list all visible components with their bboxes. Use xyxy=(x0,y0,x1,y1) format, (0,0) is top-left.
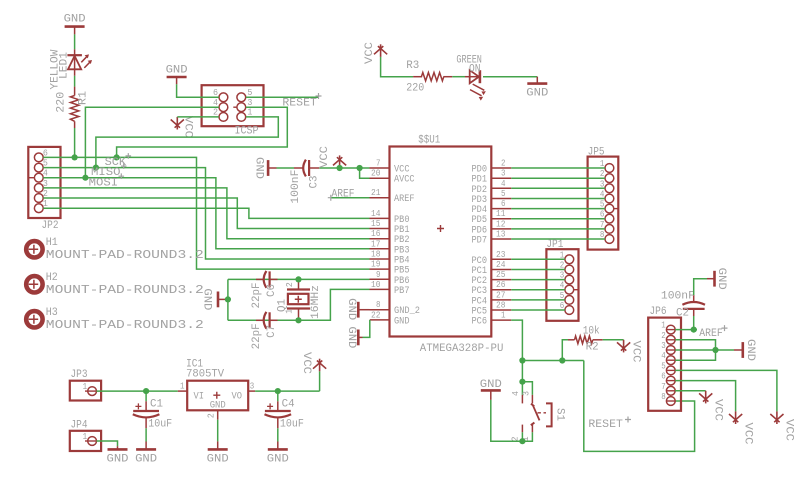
pin JP4.1 xyxy=(83,432,97,445)
svg-text:GND: GND xyxy=(107,454,129,466)
pin JP5.7 xyxy=(600,220,614,233)
pin ICSP.6 xyxy=(213,88,228,102)
wire XTAL2 row (C7 / Q1 bottom to U1 pin10) xyxy=(228,289,370,320)
svg-text:GND: GND xyxy=(744,339,756,361)
supply VCC (arrow up, at U1 pin 7 rail) xyxy=(319,146,346,168)
pin U1 PD2 4 xyxy=(472,179,512,196)
svg-text:AREF: AREF xyxy=(699,328,723,340)
switch S1 xyxy=(511,391,566,442)
wire SCK JP2.6 to PB5 xyxy=(43,157,369,269)
ground GND (right of green LED) xyxy=(526,77,548,100)
pin U1 PB4 18 xyxy=(370,250,410,267)
svg-text:3: 3 xyxy=(521,391,531,396)
pin JP2.3 xyxy=(34,179,48,192)
junction Q1 bottom xyxy=(295,317,301,323)
supply VCC (arrow up, bottom section) xyxy=(300,352,326,374)
svg-text:JP2: JP2 xyxy=(42,220,59,232)
svg-text:20: 20 xyxy=(371,169,381,179)
svg-text:C7: C7 xyxy=(266,325,278,338)
wire RESET to S1 pin4 xyxy=(521,382,523,395)
ground GND (rotated, left of C3) xyxy=(253,157,277,179)
pin IC1 VI 1 xyxy=(178,382,187,392)
ground GND (rotated, right of JP6) xyxy=(734,339,756,361)
ground GND (at JP4) xyxy=(107,446,129,465)
svg-text:100nF: 100nF xyxy=(661,291,695,303)
svg-text:15: 15 xyxy=(371,219,381,229)
svg-text:22pF: 22pF xyxy=(251,283,263,309)
wire JP6.5 to VCC xyxy=(675,370,777,411)
IC IC1 7805TV xyxy=(186,359,248,412)
svg-text:AVCC: AVCC xyxy=(394,175,415,186)
pin U1 PD0 2 xyxy=(472,159,512,176)
svg-text:VCC: VCC xyxy=(182,116,194,138)
svg-text:GND: GND xyxy=(267,454,289,466)
svg-text:ICSP: ICSP xyxy=(235,126,259,138)
svg-text:Q1: Q1 xyxy=(276,299,288,312)
svg-text:GND: GND xyxy=(715,268,727,290)
svg-text:$$U1: $$U1 xyxy=(418,134,440,146)
svg-text:VCC: VCC xyxy=(630,341,642,363)
connector JP2 xyxy=(28,147,60,232)
pin JP5.1 xyxy=(600,159,614,172)
svg-text:R1: R1 xyxy=(77,91,89,105)
svg-text:19: 19 xyxy=(371,260,381,270)
wire PD0 to JP5.1 xyxy=(511,167,605,169)
pin U1 PD5 11 xyxy=(472,209,512,226)
svg-text:VCC: VCC xyxy=(319,146,331,168)
junction S1 bottom xyxy=(519,438,525,444)
supply VCC (arrow down, far right) xyxy=(770,411,794,441)
wire JP4.1 to GND xyxy=(97,441,118,446)
svg-text:28: 28 xyxy=(496,301,506,311)
ground GND (below C4) xyxy=(267,442,289,466)
svg-text:2: 2 xyxy=(213,108,218,118)
wire RESET to S1 pin3 xyxy=(522,382,532,395)
pin JP1.2 xyxy=(560,261,574,274)
svg-text:MOUNT-PAD-ROUND3.2: MOUNT-PAD-ROUND3.2 xyxy=(46,249,204,262)
pin JP2.4 xyxy=(28,169,48,182)
pin U1 AREF 21 xyxy=(370,188,415,205)
svg-text:23: 23 xyxy=(496,250,506,260)
pin JP6.4 xyxy=(661,351,675,364)
pin JP6.8 xyxy=(661,392,675,405)
pin IC1 GND 2 xyxy=(206,410,217,419)
pin U1 PC5 28 xyxy=(472,301,512,318)
svg-text:1: 1 xyxy=(83,432,88,442)
svg-text:7: 7 xyxy=(376,159,381,169)
svg-text:GND: GND xyxy=(135,454,157,466)
wire R2 leg up xyxy=(562,340,568,361)
svg-text:10uF: 10uF xyxy=(148,418,172,430)
svg-text:10: 10 xyxy=(371,280,381,290)
pin JP1.4 xyxy=(560,281,579,294)
capacitor C6 22pF xyxy=(251,271,278,309)
svg-text:2: 2 xyxy=(501,159,506,169)
pin JP1.1 xyxy=(560,250,574,263)
svg-text:4: 4 xyxy=(501,179,506,189)
wire C2 to GND xyxy=(694,279,707,295)
svg-text:VI: VI xyxy=(194,392,205,403)
wire S1 pin1 to junction xyxy=(522,432,532,441)
svg-text:JP6: JP6 xyxy=(650,306,667,318)
wire JP6.2 to GND tie xyxy=(675,340,715,350)
svg-text:PB7: PB7 xyxy=(394,286,410,297)
pin U1 PB6 9 xyxy=(370,270,410,287)
ground GND (top-left above LED1) xyxy=(64,13,86,34)
svg-text:1: 1 xyxy=(661,321,666,331)
svg-text:5: 5 xyxy=(247,88,252,98)
wire PD4 to JP5.5 xyxy=(511,208,605,210)
ground GND (left of S1) xyxy=(480,379,502,400)
wire AREF label to U1 pin 21 xyxy=(332,197,370,199)
svg-text:VCC: VCC xyxy=(300,352,312,374)
svg-text:AREF: AREF xyxy=(394,194,415,205)
svg-text:RESET: RESET xyxy=(588,419,623,431)
pin JP6.6 xyxy=(661,372,675,385)
svg-text:1: 1 xyxy=(83,382,88,392)
capacitor C3 100nF xyxy=(290,160,320,204)
svg-text:5: 5 xyxy=(661,361,666,371)
junction SCK riser xyxy=(114,154,120,160)
pin U1 PD3 5 xyxy=(472,189,512,206)
svg-text:4: 4 xyxy=(661,351,666,361)
svg-text:H2: H2 xyxy=(46,272,58,284)
wire AVCC branch xyxy=(360,168,370,178)
capacitor C4 10uF xyxy=(265,391,304,441)
junction C4 tap xyxy=(275,388,281,394)
svg-text:JP1: JP1 xyxy=(546,239,563,251)
svg-text:AREF: AREF xyxy=(332,188,355,200)
wire GND to S1 bottom xyxy=(491,400,523,441)
svg-text:17: 17 xyxy=(371,239,381,249)
junction Q1 top xyxy=(295,276,301,282)
wire PD3 to JP5.4 xyxy=(511,198,605,200)
junction MISO riser xyxy=(93,165,99,171)
ground GND (rotated, above JP6) xyxy=(707,268,727,290)
supply VCC (arrow down, at JP6.7) xyxy=(699,391,723,422)
LED GREEN ON xyxy=(456,54,486,100)
label SCK xyxy=(105,153,132,169)
svg-text:VCC: VCC xyxy=(782,419,794,441)
svg-text:6: 6 xyxy=(661,372,666,382)
svg-text:MOUNT-PAD-ROUND3.2: MOUNT-PAD-ROUND3.2 xyxy=(46,284,204,297)
label MOSI xyxy=(89,173,125,189)
svg-text:VO: VO xyxy=(232,392,243,403)
pin ICSP.3 xyxy=(233,98,252,112)
pin ICSP.4 xyxy=(213,98,228,112)
junction RESET/R2 branch xyxy=(519,357,525,363)
svg-text:8: 8 xyxy=(661,392,666,402)
svg-text:1: 1 xyxy=(180,382,185,392)
svg-text:4: 4 xyxy=(213,98,218,108)
pin U1 GND_2 8 xyxy=(370,300,421,317)
svg-text:R2: R2 xyxy=(586,342,599,354)
svg-text:ON: ON xyxy=(469,63,481,75)
svg-text:5: 5 xyxy=(501,189,506,199)
connector JP3 xyxy=(70,369,101,400)
pin JP2.5 xyxy=(34,159,48,172)
svg-text:LED1: LED1 xyxy=(58,52,70,79)
svg-text:3: 3 xyxy=(250,382,255,392)
ground GND (rotated, at U1 pin 8) xyxy=(345,298,369,320)
pin ICSP.5 xyxy=(237,88,252,102)
label AREF (at U1 pin 21) xyxy=(328,188,355,200)
wire GND tie between C6/C7 xyxy=(227,279,229,320)
svg-text:22pF: 22pF xyxy=(251,323,263,349)
label RESET (top) xyxy=(282,93,321,109)
wire RESET run to JP6.8 xyxy=(584,361,695,452)
pin JP6.2 xyxy=(661,331,675,344)
wire GND to C3 xyxy=(277,167,295,169)
junction GND tie xyxy=(225,296,231,302)
supply VCC (top middle, arrow up) xyxy=(364,42,387,64)
svg-text:2: 2 xyxy=(206,413,216,418)
svg-text:3: 3 xyxy=(661,341,666,351)
ground GND (below C1) xyxy=(135,442,157,466)
wire GND to ICSP.6 xyxy=(177,84,219,97)
label MISO xyxy=(91,163,127,179)
junction S1 branch xyxy=(519,379,525,385)
svg-text:GND: GND xyxy=(526,88,548,100)
svg-text:4: 4 xyxy=(511,391,521,396)
svg-text:MOUNT-PAD-ROUND3.2: MOUNT-PAD-ROUND3.2 xyxy=(46,319,204,332)
svg-text:12: 12 xyxy=(496,219,506,229)
pin U1 PB1 15 xyxy=(370,219,410,236)
pin U1 PB3 17 xyxy=(370,239,410,256)
pin JP6.3 xyxy=(661,341,675,354)
wire VCC riser xyxy=(319,371,321,391)
pin U1 PB0 14 xyxy=(370,209,410,226)
label AREF (JP6) xyxy=(699,325,727,340)
wire MISO JP2.5 to PB4 xyxy=(43,168,369,259)
label RESET (bottom) xyxy=(588,417,631,432)
svg-text:7805TV: 7805TV xyxy=(186,369,224,381)
wire PC4 to JP1.5 xyxy=(511,299,565,301)
svg-text:PD7: PD7 xyxy=(472,236,488,247)
svg-text:3: 3 xyxy=(247,98,252,108)
pin U1 PB2 16 xyxy=(370,229,410,246)
pin U1 VCC 7 xyxy=(370,159,410,176)
junction AVCC branch xyxy=(357,165,363,171)
pin U1 PC3 26 xyxy=(472,280,512,297)
svg-text:7: 7 xyxy=(661,382,666,392)
LED LED1 YELLOW xyxy=(49,49,92,89)
svg-text:ATMEGA328P-PU: ATMEGA328P-PU xyxy=(420,343,504,355)
svg-text:13: 13 xyxy=(496,230,506,240)
wire JP2.3 to PB2 xyxy=(43,188,369,239)
svg-text:GND: GND xyxy=(64,13,86,25)
pin JP5.5 xyxy=(600,200,618,213)
svg-text:27: 27 xyxy=(496,290,506,300)
IC U1 ATMEGA328P-PU body xyxy=(390,134,504,354)
svg-text:C2: C2 xyxy=(676,308,689,320)
wire JP6.3 to GND tie xyxy=(675,349,734,351)
junction VCC arrow xyxy=(337,165,343,171)
svg-text:10k: 10k xyxy=(583,326,600,338)
wire RESET branch to R2 xyxy=(522,360,583,362)
wire C2 to AREF junction xyxy=(693,316,695,330)
svg-text:2: 2 xyxy=(661,331,666,341)
wire ICSP.5 to RESET label xyxy=(246,96,319,98)
svg-text:H3: H3 xyxy=(46,307,58,319)
pin JP3.1 xyxy=(83,382,97,395)
pin JP5.2 xyxy=(600,169,614,182)
mount pad H1 xyxy=(26,237,204,262)
svg-text:GND: GND xyxy=(345,298,357,320)
svg-text:11: 11 xyxy=(496,209,506,219)
svg-text:25: 25 xyxy=(496,270,506,280)
pin JP5.8 xyxy=(600,230,614,243)
svg-text:10uF: 10uF xyxy=(280,418,304,430)
svg-text:220: 220 xyxy=(406,83,424,95)
pin U1 PD1 3 xyxy=(472,169,512,186)
pin JP2.2 xyxy=(34,189,48,202)
wire JP2.2 to PB1 xyxy=(43,198,369,229)
wire PC5 to JP1.6 xyxy=(511,309,565,311)
svg-text:PC6: PC6 xyxy=(472,317,488,328)
pin U1 GND 22 xyxy=(370,310,410,327)
svg-text:14: 14 xyxy=(371,209,381,219)
pin JP5.6 xyxy=(600,210,614,223)
resistor R1 220 (vertical) xyxy=(55,87,89,128)
supply VCC (below-left of ICSP, arrow down) xyxy=(171,116,194,138)
svg-text:1: 1 xyxy=(501,311,506,321)
connector JP4 xyxy=(70,419,101,451)
wire PD2 to JP5.3 xyxy=(511,187,605,189)
wire LED1 to R1 xyxy=(74,76,76,87)
wire ICSP.4 to MOSI riser xyxy=(85,107,218,178)
pin JP5.4 xyxy=(600,190,614,203)
svg-text:JP5: JP5 xyxy=(588,147,605,159)
svg-text:18: 18 xyxy=(371,250,381,260)
wire ICSP.1 to MISO riser xyxy=(96,117,278,168)
svg-text:JP4: JP4 xyxy=(71,419,88,431)
pin U1 PC6 1 xyxy=(472,311,512,328)
pin JP1.3 xyxy=(560,271,574,284)
svg-text:VCC: VCC xyxy=(742,423,754,445)
mount pad H2 xyxy=(26,272,204,297)
svg-text:22: 22 xyxy=(371,310,381,320)
svg-text:GND: GND xyxy=(166,65,188,77)
svg-text:21: 21 xyxy=(371,188,381,198)
wire IC1 GND to ground xyxy=(217,420,219,442)
pin U1 PB5 19 xyxy=(370,260,410,277)
wire PC3 to JP1.4 xyxy=(511,289,565,291)
ground GND (rotated, at U1 pin 22) xyxy=(345,326,362,348)
svg-text:VCC: VCC xyxy=(712,399,724,421)
wire XTAL1 row (C6 / Q1 top / U1 pin9) xyxy=(228,278,370,280)
mount pad H3 xyxy=(26,307,204,332)
pin JP2.6 xyxy=(34,148,48,161)
svg-text:H1: H1 xyxy=(46,237,58,249)
svg-text:3: 3 xyxy=(501,169,506,179)
wire VO to VCC riser xyxy=(255,390,320,392)
connector ICSP xyxy=(202,85,264,138)
wire C3 to VCC rail xyxy=(319,167,369,169)
connector JP1 xyxy=(546,239,578,321)
connector JP5 xyxy=(588,147,619,250)
pin ICSP.1 xyxy=(237,108,252,122)
capacitor C2 100nF xyxy=(661,291,705,320)
junction MOSI riser xyxy=(82,175,88,181)
wire PD7 to JP5.8 xyxy=(511,238,605,240)
pin U1 PC0 23 xyxy=(472,250,512,267)
wire PC1 to JP1.2 xyxy=(511,269,565,271)
svg-text:8: 8 xyxy=(376,300,381,310)
wire PD6 to JP5.7 xyxy=(511,228,605,230)
crystal Q1 16MHz xyxy=(276,279,322,320)
wire PC2 to JP1.3 xyxy=(511,279,565,281)
pin U1 PB7 10 xyxy=(370,280,410,297)
pin JP5.3 xyxy=(600,179,614,192)
wire JP6.1 to AREF xyxy=(675,329,697,331)
svg-text:GND: GND xyxy=(207,454,229,466)
supply VCC (arrow down, right of R2) xyxy=(617,340,642,363)
svg-text:9: 9 xyxy=(376,270,381,280)
wire GND to LED1 cathode xyxy=(74,34,76,49)
wire PC6 to RESET net xyxy=(511,320,522,382)
wire S1 pin2 to junction xyxy=(521,432,523,441)
svg-text:C3: C3 xyxy=(308,176,320,189)
junction C2/AREF xyxy=(691,327,697,333)
wire VCC to R3 xyxy=(381,57,414,77)
pin U1 PC1 24 xyxy=(472,260,512,277)
junction R1/JP2.6 xyxy=(72,154,78,160)
svg-text:GND: GND xyxy=(210,401,226,412)
svg-text:100nF: 100nF xyxy=(290,170,302,204)
pin U1 PC4 27 xyxy=(472,290,512,307)
svg-text:S1: S1 xyxy=(553,408,565,421)
svg-text:R3: R3 xyxy=(406,60,419,72)
pin JP6.1 xyxy=(661,321,675,334)
svg-text:JP3: JP3 xyxy=(71,369,88,381)
ground GND (above ICSP) xyxy=(166,65,188,85)
wire JP2.1 to PB0 xyxy=(43,208,369,218)
svg-text:VCC: VCC xyxy=(364,42,376,64)
svg-text:24: 24 xyxy=(496,260,506,270)
svg-text:16MHz: 16MHz xyxy=(310,285,322,319)
wire PC0 to JP1.1 xyxy=(511,258,565,260)
junction R2 leg xyxy=(559,357,565,363)
pin U1 PC2 25 xyxy=(472,270,512,287)
pin U1 PD7 13 xyxy=(472,230,512,247)
svg-text:GND: GND xyxy=(345,326,357,348)
wire PD1 to JP5.2 xyxy=(511,177,605,179)
svg-text:1: 1 xyxy=(247,108,252,118)
pin JP6.5 xyxy=(661,361,675,374)
wire JP6.7 to VCC xyxy=(675,390,706,392)
svg-text:C6: C6 xyxy=(266,284,278,297)
pin U1 PD4 6 xyxy=(472,199,512,216)
svg-text:220: 220 xyxy=(55,92,67,113)
wire R3 to LED xyxy=(452,76,465,78)
pin JP1.5 xyxy=(560,291,574,304)
pin JP2.1 xyxy=(34,199,48,212)
connector JP6 xyxy=(648,306,681,411)
ground GND (rotated, crystal) xyxy=(201,288,228,310)
wire R1 to SCK row xyxy=(74,128,76,157)
wire R2 to VCC xyxy=(603,339,624,341)
resistor R2 10k xyxy=(568,326,603,354)
wire JP6.6 to VCC xyxy=(675,381,735,412)
capacitor C7 22pF xyxy=(251,312,278,350)
capacitor C1 10uF xyxy=(133,391,172,441)
ground GND (below IC1) xyxy=(207,441,229,465)
wire MOSI JP2.4 to PB3 xyxy=(43,178,369,249)
junction C1 tap xyxy=(143,388,149,394)
wire PD5 to JP5.6 xyxy=(511,218,605,220)
pin ICSP.2 xyxy=(213,108,228,122)
